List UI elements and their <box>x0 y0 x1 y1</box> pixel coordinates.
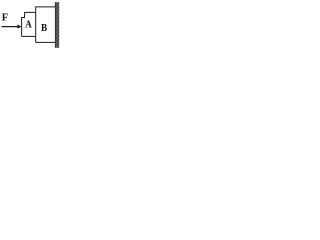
wall left edge <box>54 2 56 48</box>
block B outline <box>36 7 56 43</box>
svg-text:A: A <box>25 19 32 31</box>
block A bottom edge <box>22 35 36 37</box>
block B bottom edge <box>36 41 56 43</box>
wall <box>55 2 59 48</box>
wire force arrow shaft <box>2 26 19 28</box>
svg-text:B: B <box>41 23 48 35</box>
svg-text:F: F <box>2 12 8 23</box>
block A outline (stepped top) <box>22 12 36 36</box>
arrowhead <box>17 24 21 28</box>
